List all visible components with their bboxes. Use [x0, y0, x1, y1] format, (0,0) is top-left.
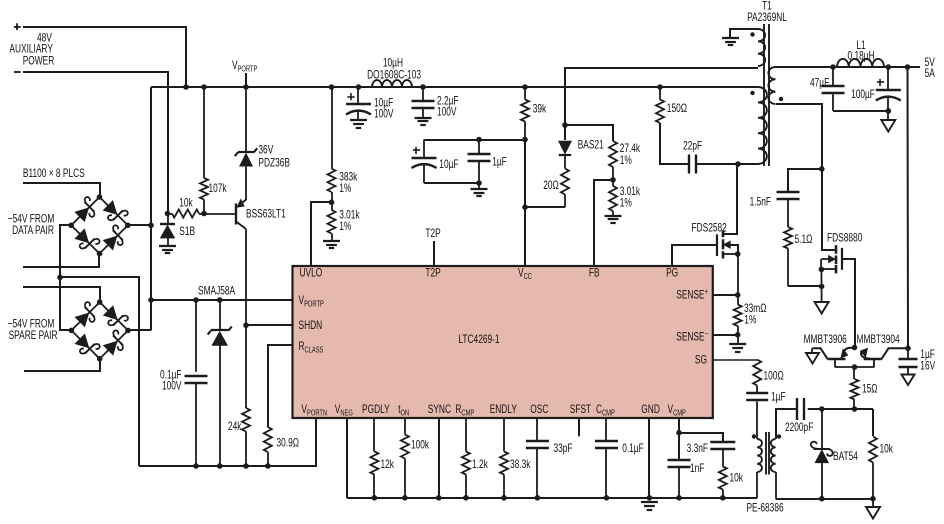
- svg-text:CC: CC: [524, 272, 532, 281]
- junction rail 33pF: [535, 495, 541, 501]
- junction VPORTP/48V+: [183, 84, 189, 90]
- wire SHDN pin: [246, 324, 293, 326]
- wire VPORTP to bridges vertical x151: [150, 87, 152, 330]
- svg-text:PGDLY: PGDLY: [362, 403, 390, 416]
- junction 39k/vcc: [522, 137, 528, 143]
- wire VPORTP label stub: [245, 73, 247, 87]
- resistor 12k PGDLY: [373, 418, 375, 452]
- ground T1 aux: [722, 37, 739, 39]
- node T1 secondary phase dot: [779, 97, 783, 101]
- transformer T2 right winding: [771, 439, 776, 472]
- svg-text:PORTP: PORTP: [304, 299, 324, 308]
- junction MMBT emitters: [852, 364, 858, 370]
- wire snubber to 22pF: [660, 123, 689, 164]
- wire output caps bottom: [833, 110, 888, 112]
- diode SMAJ58A TVS: [219, 300, 221, 331]
- transformer T2 left winding: [756, 402, 758, 440]
- junction VPORTP/107k: [201, 84, 207, 90]
- resistor 100ohm SG: [753, 360, 761, 386]
- diode BAS21: [559, 141, 572, 154]
- svg-text:150Ω: 150Ω: [667, 102, 687, 115]
- svg-text:1µF: 1µF: [492, 156, 507, 169]
- junction VCMP: [676, 430, 682, 436]
- wire FB divider top: [565, 125, 613, 141]
- wire UVLO pin: [311, 202, 332, 266]
- junction 47uF: [830, 64, 836, 70]
- capacitor 10uF vcc polarized: [423, 140, 425, 158]
- resistor 20ohm: [561, 169, 569, 195]
- svg-text:5A: 5A: [925, 67, 935, 80]
- wire data pair line B to bridge1 bottom: [23, 254, 99, 267]
- wire 5V output rail: [776, 66, 921, 68]
- svg-text:S1B: S1B: [179, 225, 195, 238]
- svg-text:BSS63LT1: BSS63LT1: [246, 208, 286, 221]
- wire RCLASS pin: [268, 345, 292, 427]
- resistor 33mohm 1%: [737, 295, 739, 305]
- svg-text:47µF: 47µF: [810, 77, 829, 90]
- junction VPORTP/150ohm: [657, 84, 663, 90]
- junction VPORTN SMAJ: [217, 463, 223, 469]
- resistor 38.3k ENDLY: [503, 418, 505, 452]
- junction BAT54 bottom: [819, 496, 825, 502]
- junction sync node: [819, 166, 825, 172]
- junction BAS21/27.4k: [562, 122, 568, 128]
- wire vcc caps bottom: [424, 182, 479, 184]
- junction 10k right / 107k: [201, 211, 207, 217]
- wire spare pair line B to bridge2 bottom: [24, 359, 100, 371]
- capacitor 1uF 16V: [907, 348, 909, 358]
- svg-text:1.2k: 1.2k: [472, 458, 488, 471]
- junction VPORTP/zener: [243, 84, 249, 90]
- wire bridge1 + output: [128, 224, 151, 226]
- op-amp U1 LTC4269-1 IC body: [293, 266, 713, 418]
- wire FDS8880 gate: [842, 259, 855, 348]
- svg-text:BAT54: BAT54: [833, 450, 858, 463]
- node T2 right phase dot: [777, 434, 781, 438]
- resistor 15ohm: [853, 367, 855, 379]
- svg-text:CLASS: CLASS: [305, 345, 324, 354]
- wire 2200pF to PE winding: [776, 409, 796, 439]
- junction rail SYNC: [436, 495, 442, 501]
- svg-text:100k: 100k: [411, 439, 429, 452]
- junction bridge - common branch: [57, 275, 63, 281]
- svg-text:1%: 1%: [339, 220, 351, 233]
- svg-text:SG: SG: [695, 354, 707, 367]
- ground secondary triangle: [872, 499, 874, 507]
- resistor 10k aux: [168, 213, 173, 215]
- resistor 150ohm snubber: [659, 87, 661, 100]
- ground 2.2uF: [415, 117, 432, 119]
- ground MMBT3906 collector triangle: [811, 348, 813, 353]
- junction MMBT3904 collector/1uF: [905, 346, 911, 352]
- svg-text:MMBT3904: MMBT3904: [857, 333, 901, 346]
- transistor Q3 MMBT3904 NPN: [864, 358, 882, 361]
- junction rail GND: [647, 495, 653, 501]
- capacitor 0.1uF 100V input: [195, 300, 197, 372]
- junction VPORTP/39k: [522, 84, 528, 90]
- junction 10k bottom: [870, 496, 876, 502]
- svg-text:POWER: POWER: [23, 55, 55, 68]
- node T2 left phase dot: [752, 434, 756, 438]
- transformer T1 secondary winding: [768, 67, 775, 104]
- capacitor 2.2uF 100V: [422, 87, 424, 101]
- svg-text:B1100 × 8 PLCS: B1100 × 8 PLCS: [23, 167, 85, 180]
- svg-text:SMAJ58A: SMAJ58A: [198, 285, 235, 298]
- capacitor 10uF 100V polarized: [357, 87, 359, 104]
- wire SYNC stub: [438, 418, 440, 498]
- svg-text:10k: 10k: [730, 472, 744, 485]
- wire 22pF to transformer: [696, 163, 758, 165]
- junction SENSE+: [735, 292, 741, 298]
- junction rail 100k: [402, 495, 408, 501]
- junction VCC/20ohm: [522, 204, 528, 210]
- wire VPORTN rail left: [139, 418, 316, 466]
- capacitor 3.3nF: [710, 441, 735, 443]
- junction 0.1uF top: [193, 297, 199, 303]
- junction rail 1.2k: [463, 495, 469, 501]
- svg-text:20Ω: 20Ω: [543, 179, 559, 192]
- transformer T1 aux winding: [730, 29, 758, 38]
- svg-text:22pF: 22pF: [683, 140, 702, 153]
- svg-text:FDS2582: FDS2582: [692, 222, 727, 235]
- resistor 1.2k RCMP: [465, 418, 467, 452]
- node T1 aux phase dot: [750, 32, 754, 36]
- wire GND stub: [648, 418, 650, 498]
- junction BAT54 top: [819, 406, 825, 412]
- svg-text:100Ω: 100Ω: [764, 370, 784, 383]
- transformer T1 core: [763, 24, 765, 166]
- svg-text:100V: 100V: [437, 106, 457, 119]
- wire secondary bottom: [776, 104, 822, 169]
- svg-text:38.3k: 38.3k: [510, 458, 531, 471]
- svg-text:1nF: 1nF: [690, 462, 704, 475]
- junction vcc caps gnd: [476, 180, 482, 186]
- svg-text:1%: 1%: [620, 197, 632, 210]
- svg-text:1µF: 1µF: [771, 391, 786, 404]
- junction VPORTN 30.9ohm: [265, 463, 271, 469]
- junction 1uF vcc: [476, 137, 482, 143]
- diode S1B schottky: [167, 214, 169, 225]
- transistor Q1 BSS63LT1 PNP: [235, 204, 237, 225]
- wire SENSE+ pin: [713, 294, 738, 296]
- node 48V aux + terminal label: [14, 26, 21, 28]
- wire PG pin to gate: [672, 245, 717, 266]
- wire secondary gnd rail: [776, 498, 873, 500]
- junction bridge1 + output: [148, 223, 154, 229]
- wire 48V+ top: [23, 27, 186, 87]
- svg-text:GND: GND: [641, 403, 660, 416]
- wire 48V- to 10k node: [23, 72, 168, 214]
- svg-text:2200pF: 2200pF: [785, 421, 813, 434]
- svg-text:DO1608C-103: DO1608C-103: [367, 69, 421, 82]
- resistor 24k: [245, 325, 247, 408]
- wire SENSE- pin: [713, 334, 738, 336]
- junction SHDN/24k: [243, 323, 249, 329]
- resistor 383k 1%: [331, 87, 333, 169]
- capacitor 2200pF coupling: [796, 398, 798, 420]
- resistor 10k gate: [872, 409, 874, 436]
- capacitor 1uF SG: [756, 386, 758, 393]
- diode BAT54 schottky: [821, 409, 823, 449]
- inductor L1 0.18uH: [837, 59, 884, 67]
- svg-text:100V: 100V: [374, 108, 394, 121]
- junction SMAJ58A top: [217, 297, 223, 303]
- ground output triangle: [887, 111, 889, 120]
- junction rail 12k: [372, 495, 378, 501]
- transistor M2 FDS8880 NMOS: [822, 169, 836, 250]
- resistor 3.01k 1% uvlo: [328, 210, 336, 234]
- junction MMBT bases: [852, 345, 858, 351]
- junction 15ohm bottom: [852, 406, 858, 412]
- svg-text:1%: 1%: [744, 314, 756, 327]
- transformer T2 PE-68386 core: [765, 432, 767, 475]
- capacitor 33pF OSC: [536, 418, 538, 441]
- junction VPORTP pin branch: [148, 297, 154, 303]
- capacitor 1nF vcmp: [668, 459, 691, 461]
- svg-text:+: +: [705, 287, 709, 296]
- junction FB node: [610, 177, 616, 183]
- ground S1B: [159, 245, 176, 247]
- svg-text:SPARE PAIR: SPARE PAIR: [9, 329, 58, 342]
- wire 20ohm to VCC: [525, 206, 565, 208]
- svg-text:5.1Ω: 5.1Ω: [795, 233, 813, 246]
- svg-text:100V: 100V: [162, 380, 182, 393]
- wire VCMP stub: [678, 418, 680, 460]
- svg-text:33pF: 33pF: [554, 442, 573, 455]
- svg-text:39k: 39k: [533, 103, 547, 116]
- capacitor 1uF vcc: [478, 140, 480, 155]
- junction 5V branch: [905, 64, 911, 70]
- wire SFST stub: [578, 418, 580, 436]
- resistor 5.1ohm: [787, 199, 789, 227]
- svg-text:24k: 24k: [228, 420, 242, 433]
- svg-text:CMP: CMP: [602, 408, 615, 417]
- ground 3.01k uvlo: [323, 240, 340, 242]
- svg-text:T2P: T2P: [425, 227, 440, 240]
- wire SG pin: [713, 359, 757, 361]
- wire BSS63LT1 base: [205, 213, 236, 215]
- node 48V aux - terminal label: [14, 71, 21, 73]
- svg-text:MMBT3906: MMBT3906: [804, 333, 847, 346]
- wire VNEG stub: [346, 418, 348, 498]
- svg-text:36V: 36V: [258, 144, 273, 157]
- junction rail 10k vcmp: [720, 495, 726, 501]
- svg-text:CMP: CMP: [673, 408, 686, 417]
- svg-text:1.5nF: 1.5nF: [750, 196, 771, 209]
- resistor 3.01k 1% fb: [609, 186, 617, 211]
- wire bridge1 - output to common: [60, 225, 71, 330]
- zener PDZ36B 36V: [245, 87, 247, 152]
- svg-text:DATA PAIR: DATA PAIR: [12, 224, 54, 237]
- resistor 107k: [203, 87, 205, 178]
- wire sync to RC snubber: [788, 169, 822, 192]
- wire FB pin: [594, 180, 613, 266]
- svg-text:30.9Ω: 30.9Ω: [277, 437, 300, 450]
- junction FDS8880 source/gnd: [819, 284, 825, 290]
- junction VPORTP/383k: [329, 84, 335, 90]
- wire VCMP to 3.3nF: [679, 433, 723, 442]
- ground 3.01k fb: [605, 215, 622, 217]
- resistor 100k tON: [404, 418, 406, 435]
- wire bottom rail: [347, 497, 758, 499]
- svg-text:SENSE: SENSE: [676, 289, 704, 302]
- capacitor 100uF output polarized: [887, 67, 889, 90]
- svg-text:3.3nF: 3.3nF: [687, 442, 708, 455]
- svg-text:BAS21: BAS21: [578, 139, 604, 152]
- capacitor 22pF snubber: [688, 155, 690, 174]
- wire VPORTP pin: [151, 299, 293, 301]
- svg-text:SENSE: SENSE: [676, 331, 704, 344]
- svg-text:PG: PG: [666, 267, 678, 280]
- junction rail 1nF: [676, 495, 682, 501]
- wire VCC vertical: [524, 140, 526, 267]
- wire VPORTP rail y87: [151, 86, 758, 88]
- svg-text:10k: 10k: [880, 443, 894, 456]
- junction VPORTP/2.2uF: [420, 84, 426, 90]
- wire MMBT emitter rail: [835, 366, 875, 368]
- svg-text:ON: ON: [401, 408, 410, 417]
- wire 5.1ohm to FDS8880 source: [788, 285, 822, 287]
- wire gate drive net: [808, 408, 873, 410]
- junction 10k left / S1B: [165, 211, 171, 217]
- svg-text:T2P: T2P: [425, 267, 440, 280]
- resistor 27.4k 1%: [609, 141, 617, 167]
- svg-text:107k: 107k: [209, 182, 227, 195]
- capacitor 47uF output: [832, 67, 834, 86]
- transformer T1 primary winding: [758, 87, 767, 164]
- svg-text:100µF: 100µF: [851, 88, 875, 101]
- junction rail 0.1uF: [604, 495, 610, 501]
- ground GND pin: [641, 501, 658, 503]
- junction rail 38.3k: [501, 495, 507, 501]
- svg-text:PE-68386: PE-68386: [747, 502, 784, 515]
- svg-text:ENDLY: ENDLY: [490, 403, 517, 416]
- svg-text:SFST: SFST: [570, 403, 591, 416]
- junction 100uF: [886, 64, 892, 70]
- inductor 10uH DO1608C-103: [372, 80, 412, 87]
- node T1 primary phase dot: [750, 91, 754, 95]
- svg-text:−: −: [705, 329, 709, 338]
- svg-text:10k: 10k: [179, 197, 193, 210]
- junction SENSE-: [735, 332, 741, 338]
- resistor 30.9ohm RCLASS: [264, 427, 272, 452]
- svg-text:SHDN: SHDN: [299, 319, 323, 332]
- svg-text:PDZ36B: PDZ36B: [258, 157, 290, 170]
- junction VPORTN 24k: [243, 463, 249, 469]
- capacitor 1.5nF: [777, 191, 800, 193]
- wire bridge2 + output: [127, 329, 151, 331]
- ground sense: [729, 343, 746, 345]
- svg-text:FDS8880: FDS8880: [827, 232, 862, 245]
- svg-text:1%: 1%: [620, 154, 632, 167]
- wire data pair line A to bridge1 top: [23, 183, 100, 197]
- junction T1 primary bottom / FDS2582 drain: [735, 161, 741, 167]
- svg-text:PA2369NL: PA2369NL: [747, 11, 787, 24]
- svg-text:LTC4269-1: LTC4269-1: [458, 333, 499, 346]
- svg-text:10µF: 10µF: [439, 158, 458, 171]
- svg-text:PORTP: PORTP: [238, 64, 258, 73]
- transistor M1 FDS2582 NMOS: [716, 234, 718, 256]
- junction UVLO divider: [331, 192, 333, 210]
- ground FDS8880 source: [815, 302, 829, 314]
- wire 5V to MMBT3904 collector: [907, 67, 910, 348]
- diode bridge B1 data pair (B1100 x4): [71, 197, 99, 225]
- wire T1 aux winding to BAS21: [565, 68, 758, 140]
- svg-text:UVLO: UVLO: [300, 267, 323, 280]
- junction VPORTP/10uF: [356, 84, 362, 90]
- svg-text:FB: FB: [589, 267, 600, 280]
- junction output gnd: [886, 108, 892, 114]
- wire spare pair line A to bridge2 top: [23, 287, 100, 302]
- svg-text:0.18µH: 0.18µH: [848, 50, 875, 63]
- svg-text:0.1µF: 0.1µF: [622, 442, 644, 455]
- svg-text:SYNC: SYNC: [428, 403, 451, 416]
- ground 10uF 100V: [350, 119, 367, 121]
- capacitor 0.1uF CCMP: [605, 418, 607, 441]
- svg-text:NEG: NEG: [340, 408, 353, 417]
- diode bridge B2 spare pair (B1100 x4): [71, 302, 99, 330]
- wire bridge - common to VPORTN rail: [60, 277, 139, 466]
- svg-text:16V: 16V: [920, 360, 935, 373]
- svg-text:1%: 1%: [339, 182, 351, 195]
- junction VPORTN 0.1uF: [193, 463, 199, 469]
- svg-text:15Ω: 15Ω: [862, 383, 878, 396]
- svg-text:CMP: CMP: [461, 408, 474, 417]
- transistor Q2 MMBT3906 PNP: [828, 358, 846, 361]
- ground vcc caps: [478, 183, 480, 189]
- wire VCC mid rail: [424, 139, 525, 141]
- svg-text:PORTN: PORTN: [307, 408, 327, 417]
- ground 1uF 16V triangle: [902, 375, 915, 386]
- svg-text:12k: 12k: [381, 458, 395, 471]
- wire T2P stub: [433, 241, 435, 266]
- resistor 39k: [524, 87, 526, 100]
- resistor 10k vcmp: [722, 449, 724, 467]
- svg-text:OSC: OSC: [530, 403, 548, 416]
